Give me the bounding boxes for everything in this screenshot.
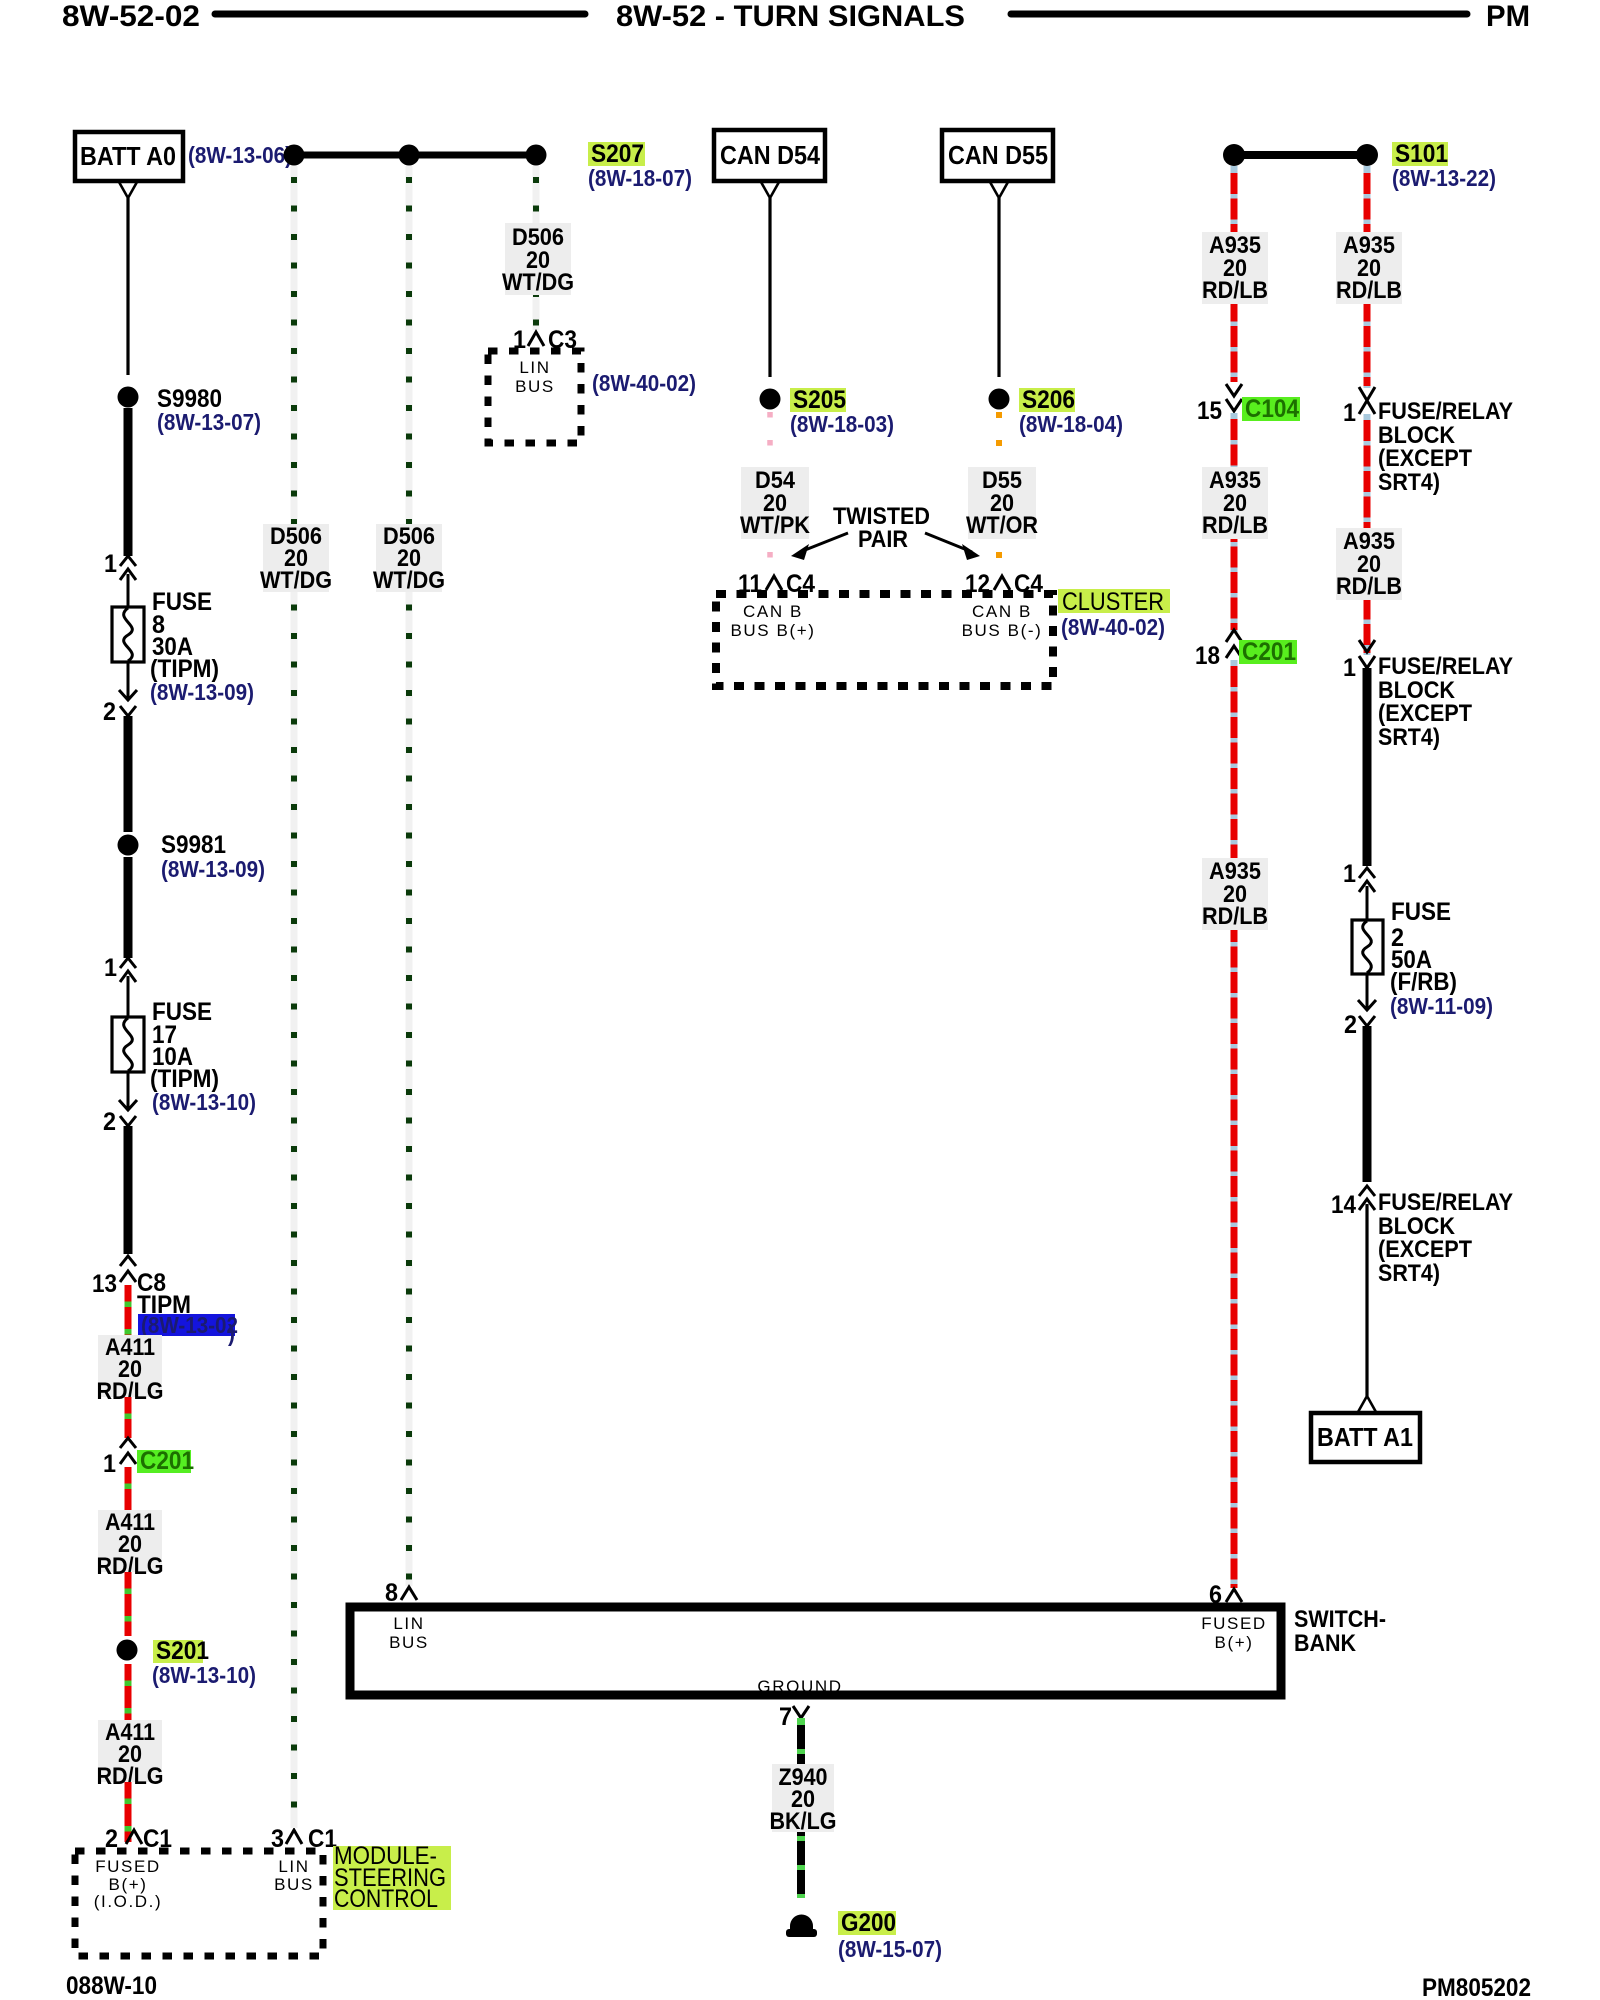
svg-text:2: 2	[105, 1825, 118, 1853]
wire A411 to C1 pin 2	[125, 1782, 132, 1842]
svg-text:FUSE: FUSE	[1391, 898, 1451, 926]
wire CAN D55 to S206	[997, 198, 1000, 377]
wire fuse 2 out / pin 2	[1366, 974, 1369, 1010]
svg-text:BUS: BUS	[515, 377, 555, 396]
wire fuse 2 to block pin 14	[1363, 1026, 1372, 1182]
svg-text:): )	[228, 1320, 235, 1346]
fuse F8 30A (TIPM)	[112, 607, 144, 662]
battery feed box BATT A0	[75, 132, 183, 181]
pin label LIN BUS (C3)	[515, 358, 555, 396]
svg-text:1: 1	[1343, 654, 1356, 682]
svg-text:2: 2	[1344, 1011, 1357, 1039]
node CAN D55 box	[942, 130, 1053, 181]
wire label A411 20 RD/LG (2)	[97, 1509, 164, 1580]
wire label D506 20 WT/DG (top)	[502, 223, 574, 296]
svg-text:S206: S206	[1022, 386, 1075, 414]
wire A935 RD/LB (C104 to C201)	[1231, 413, 1238, 632]
wire inside fuse/relay block to fuse 2	[1363, 668, 1372, 866]
svg-text:BANK: BANK	[1294, 1630, 1357, 1657]
svg-text:PM: PM	[1486, 0, 1530, 33]
svg-text:(8W-18-07): (8W-18-07)	[588, 165, 692, 191]
arrow to right wire	[925, 533, 980, 560]
splice junction dot right (S101)	[1356, 144, 1378, 166]
svg-text:6: 6	[1209, 1581, 1222, 1609]
svg-text:FUSE/RELAY: FUSE/RELAY	[1378, 1189, 1513, 1216]
wire label A411 20 RD/LG (3)	[97, 1719, 164, 1790]
wire label D55 20 WT/OR	[966, 467, 1038, 539]
svg-text:(8W-40-02): (8W-40-02)	[592, 370, 696, 396]
svg-text:18: 18	[1195, 642, 1220, 670]
svg-text:13: 13	[92, 1270, 117, 1298]
svg-text:BATT A1: BATT A1	[1317, 1422, 1413, 1452]
connector C201 pin 18	[1226, 630, 1242, 658]
svg-text:SRT4): SRT4)	[1378, 724, 1440, 751]
svg-text:(8W-13-09): (8W-13-09)	[150, 679, 254, 705]
splice junction dot left (A935)	[1223, 144, 1245, 166]
svg-text:(EXCEPT: (EXCEPT	[1378, 445, 1472, 472]
svg-text:8W-52-02: 8W-52-02	[62, 0, 200, 33]
svg-text:CAN D54: CAN D54	[720, 140, 820, 170]
svg-text:(8W-18-03): (8W-18-03)	[790, 411, 894, 437]
wire bus S101	[1234, 151, 1367, 159]
svg-text:SRT4): SRT4)	[1378, 1260, 1440, 1287]
svg-text:CAN B: CAN B	[972, 602, 1032, 621]
svg-text:(8W-11-09): (8W-11-09)	[1390, 993, 1493, 1019]
svg-text:C104: C104	[1245, 395, 1299, 423]
wire fuse 8 out / pin 2	[127, 662, 130, 700]
svg-text:1: 1	[103, 1450, 116, 1478]
svg-text:088W-10: 088W-10	[66, 1972, 157, 2000]
splice S205	[760, 389, 781, 410]
wire S9981 to fuse 17	[124, 857, 133, 958]
svg-text:SRT4): SRT4)	[1378, 469, 1440, 496]
wire label A935 20 RD/LB (left 1)	[1202, 232, 1268, 304]
splice S201	[117, 1640, 138, 1661]
header rule right	[1011, 11, 1467, 18]
connector C104 pin 15	[1226, 384, 1242, 411]
svg-text:(8W-13-07): (8W-13-07)	[157, 409, 261, 435]
ground label G200	[838, 1909, 896, 1937]
svg-text:8W-52 - TURN SIGNALS: 8W-52 - TURN SIGNALS	[616, 0, 965, 33]
splice junction dot right (S207)	[526, 145, 547, 166]
svg-text:1: 1	[104, 550, 117, 578]
svg-text:B(+): B(+)	[1215, 1633, 1254, 1652]
connector V above BATT A1	[1358, 1396, 1376, 1412]
wire D55 (WT/OR dotted) S206 to C4	[996, 412, 1002, 578]
wire label A935 20 RD/LB (left 2)	[1202, 467, 1268, 539]
wire D506 LIN bus (right drop, to C3)	[533, 166, 540, 330]
svg-text:(EXCEPT: (EXCEPT	[1378, 1236, 1472, 1263]
module-steering control label	[333, 1842, 451, 1913]
wire S9980 to fuse 8	[124, 408, 133, 556]
svg-text:PAIR: PAIR	[858, 526, 908, 553]
svg-text:BUS: BUS	[389, 1633, 429, 1652]
svg-text:BUS: BUS	[274, 1875, 314, 1894]
svg-text:WT/DG: WT/DG	[373, 567, 445, 594]
wire D54 (WT/PK dotted) S205 to C4	[767, 412, 773, 578]
wire label D506 20 WT/DG (mid)	[373, 523, 445, 594]
wire fuse 8 to S9981	[124, 716, 133, 832]
svg-text:BUS B(+): BUS B(+)	[730, 621, 815, 640]
wire A935 RD/LB (C201 to switch-bank pin 6)	[1231, 660, 1238, 1588]
svg-text:(F/RB): (F/RB)	[1390, 968, 1457, 996]
wire A411 label to C201	[125, 1397, 132, 1438]
wire block to BATT A1	[1365, 1204, 1368, 1396]
wire C201 to A411 label 2	[125, 1467, 132, 1510]
wire A935 RD/LB (left column, S101 to C104)	[1231, 166, 1238, 382]
svg-text:CONTROL: CONTROL	[334, 1885, 438, 1913]
svg-text:LIN: LIN	[519, 358, 550, 377]
wire BATT A0 to S9980	[126, 198, 129, 375]
battery feed box BATT A1	[1311, 1413, 1420, 1462]
svg-text:CAN B: CAN B	[743, 602, 803, 621]
svg-text:FUSED: FUSED	[1201, 1614, 1267, 1633]
svg-text:14: 14	[1331, 1191, 1356, 1219]
svg-text:RD/LB: RD/LB	[1336, 277, 1402, 304]
ground symbol G200	[786, 1915, 817, 1937]
note TWISTED PAIR	[833, 503, 930, 553]
connector C8 pin 13 (TIPM)	[120, 1256, 136, 1282]
wire label A935 20 RD/LB (right 2)	[1336, 528, 1402, 600]
svg-text:(8W-18-04): (8W-18-04)	[1019, 411, 1123, 437]
svg-text:(8W-13-10): (8W-13-10)	[152, 1662, 256, 1688]
wire Z940 BK/LG switch-bank to G200	[797, 1718, 805, 1898]
wire D506 LIN bus (left drop, to C1 pin 3)	[291, 166, 298, 1828]
wire label D506 20 WT/DG (left)	[260, 523, 332, 594]
wire fuse 17 to C8	[124, 1126, 133, 1254]
pin label FUSED B(+) (switch-bank)	[1201, 1614, 1267, 1652]
svg-text:(8W-13-10): (8W-13-10)	[152, 1089, 256, 1115]
svg-text:FUSE/RELAY: FUSE/RELAY	[1378, 653, 1513, 680]
pin label LIN BUS (switch-bank)	[389, 1614, 429, 1652]
svg-text:LIN: LIN	[393, 1614, 424, 1633]
svg-text:8: 8	[385, 1579, 398, 1607]
splice label S207	[588, 140, 645, 168]
splice S9981	[118, 835, 139, 856]
svg-text:BATT A0: BATT A0	[80, 141, 176, 171]
wire A935 RD/LB (right column, S101 to fuse/relay block)	[1364, 166, 1371, 388]
node CAN D54 box	[714, 130, 825, 181]
svg-text:1: 1	[1343, 399, 1356, 427]
svg-text:S201: S201	[156, 1637, 209, 1665]
wire A411 to S201	[125, 1572, 132, 1636]
svg-text:S205: S205	[793, 386, 846, 414]
svg-text:S9981: S9981	[161, 831, 226, 859]
svg-text:RD/LB: RD/LB	[1202, 277, 1268, 304]
svg-text:FUSED: FUSED	[95, 1857, 161, 1876]
svg-text:RD/LB: RD/LB	[1202, 903, 1268, 930]
svg-text:FUSE/RELAY: FUSE/RELAY	[1378, 398, 1513, 425]
fuse F2 50A (F/RB)	[1352, 920, 1383, 974]
wire label Z940 20 BK/LG	[770, 1764, 837, 1835]
wire S201 to A411 label 3	[125, 1664, 132, 1720]
svg-text:WT/OR: WT/OR	[966, 512, 1038, 539]
svg-text:1: 1	[104, 954, 117, 982]
svg-text:3: 3	[271, 1825, 284, 1853]
connector X fuse/relay block pin 1 (in)	[1359, 387, 1375, 414]
splice S206	[989, 389, 1010, 410]
wire label A411 20 RD/LG (1)	[97, 1334, 164, 1405]
pin label CAN B BUS B(+)	[730, 602, 815, 640]
connector V under CAN D54	[761, 182, 779, 198]
switch-bank box	[350, 1607, 1281, 1695]
block pin 14 (out)	[1359, 1186, 1375, 1210]
splice S9980	[118, 387, 139, 408]
svg-text:(8W-40-02): (8W-40-02)	[1061, 614, 1165, 640]
wire bus BATT A0 feed	[293, 152, 536, 159]
header rule left	[215, 11, 585, 18]
LIN BUS connector box C3 (dashed)	[488, 351, 581, 443]
connector V under CAN D55	[990, 182, 1008, 198]
wire CAN D54 to S205	[768, 198, 771, 377]
wire label A935 20 RD/LB (left 3)	[1202, 858, 1268, 930]
pin label CAN B BUS B(-)	[962, 602, 1043, 640]
svg-text:LIN: LIN	[278, 1857, 309, 1876]
component label SWITCH-BANK	[1294, 1606, 1386, 1657]
splice label S101	[1392, 140, 1448, 168]
svg-text:C201: C201	[140, 1447, 194, 1475]
svg-text:RD/LB: RD/LB	[1336, 573, 1402, 600]
svg-text:S101: S101	[1395, 140, 1448, 168]
svg-text:(8W-15-07): (8W-15-07)	[838, 1936, 942, 1962]
svg-text:SWITCH-: SWITCH-	[1294, 1606, 1386, 1633]
svg-text:C1: C1	[308, 1825, 337, 1853]
svg-text:(8W-13-22): (8W-13-22)	[1392, 165, 1496, 191]
svg-text:BUS B(-): BUS B(-)	[962, 621, 1043, 640]
wire D506 LIN bus (mid drop, to switch-bank pin 8)	[406, 166, 413, 1586]
component label FUSE/RELAY BLOCK (EXCEPT SRT4) (1)	[1378, 398, 1513, 496]
wire label D54 20 WT/PK	[740, 467, 811, 539]
svg-text:WT/DG: WT/DG	[260, 567, 332, 594]
svg-text:2: 2	[103, 1108, 116, 1136]
svg-text:C201: C201	[1242, 638, 1296, 666]
svg-text:CLUSTER: CLUSTER	[1062, 588, 1164, 616]
svg-text:2: 2	[103, 698, 116, 726]
cluster connector box (dashed)	[716, 594, 1053, 686]
module-steering control box (dashed)	[75, 1851, 323, 1956]
svg-text:1: 1	[1343, 860, 1356, 888]
svg-text:7: 7	[779, 1703, 792, 1731]
svg-text:BK/LG: BK/LG	[770, 1808, 837, 1835]
pin label LIN BUS (module)	[274, 1857, 314, 1894]
component label FUSE/RELAY BLOCK (EXCEPT SRT4) (2)	[1378, 653, 1513, 751]
connector C201 pin 1	[120, 1438, 136, 1464]
svg-text:GROUND: GROUND	[757, 1677, 842, 1696]
splice junction dot left	[284, 145, 305, 166]
splice junction dot mid	[399, 145, 420, 166]
svg-text:(I.O.D.): (I.O.D.)	[94, 1892, 163, 1911]
svg-text:(8W-13-06): (8W-13-06)	[188, 142, 292, 168]
svg-text:15: 15	[1197, 397, 1222, 425]
component label FUSE/RELAY BLOCK (EXCEPT SRT4) (3)	[1378, 1189, 1513, 1287]
svg-text:(8W-13-09): (8W-13-09)	[161, 856, 265, 882]
svg-text:PM805202: PM805202	[1422, 1974, 1531, 2000]
wire A935 RD/LB (X to block pin 1)	[1364, 414, 1371, 655]
svg-text:(8W-13-02: (8W-13-02	[141, 1312, 238, 1338]
pin label FUSED B(+) (I.O.D.)	[94, 1857, 163, 1911]
arrow to left wire	[791, 533, 848, 560]
svg-text:(EXCEPT: (EXCEPT	[1378, 700, 1472, 727]
svg-text:CAN D55: CAN D55	[948, 140, 1048, 170]
wire fuse 17 out / pin 2	[127, 1072, 130, 1110]
svg-text:S207: S207	[591, 140, 644, 168]
fuse F17 10A (TIPM)	[112, 1017, 144, 1072]
highlighted reference (8W-13-02) under TIPM	[138, 1312, 238, 1346]
wire A411 segment C8 to label (RD/LG)	[125, 1285, 132, 1335]
connector fuse/relay block pin 1 (entry)	[1359, 640, 1375, 668]
wire label A935 20 RD/LB (right 1)	[1336, 232, 1402, 304]
cluster label	[1058, 588, 1170, 616]
svg-text:G200: G200	[841, 1909, 896, 1937]
svg-text:WT/DG: WT/DG	[502, 269, 574, 296]
connector V under BATT A0	[119, 182, 137, 198]
svg-text:RD/LB: RD/LB	[1202, 512, 1268, 539]
svg-text:WT/PK: WT/PK	[740, 512, 811, 539]
